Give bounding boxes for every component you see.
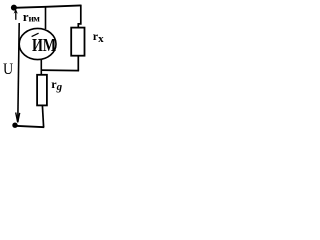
resistor rд bbox=[37, 75, 47, 106]
terminal top-left bbox=[11, 5, 17, 11]
wire ИМ bottom stub bbox=[40, 59, 42, 75]
label ИМ bbox=[32, 35, 56, 56]
resistor rx bbox=[71, 28, 84, 56]
wire rд bottom stub bbox=[42, 106, 43, 128]
wire top bbox=[14, 5, 81, 7]
meter pointer mark above ИМ bbox=[32, 33, 39, 36]
wire rx bottom stub bbox=[77, 57, 79, 71]
voltage arrow U (down) bbox=[18, 23, 19, 122]
wire ИМ top stub bbox=[45, 7, 47, 29]
label rx bbox=[93, 29, 104, 45]
current arrow rим (up) bbox=[15, 11, 17, 20]
wire right drop with jog bbox=[78, 5, 81, 28]
label rим bbox=[23, 9, 40, 25]
meter ИМ circle bbox=[19, 28, 56, 59]
wire middle rail bbox=[41, 69, 80, 72]
label U bbox=[3, 61, 13, 79]
label rд bbox=[51, 77, 62, 93]
terminal bottom-left bbox=[12, 123, 17, 128]
wire bottom bbox=[15, 126, 44, 127]
